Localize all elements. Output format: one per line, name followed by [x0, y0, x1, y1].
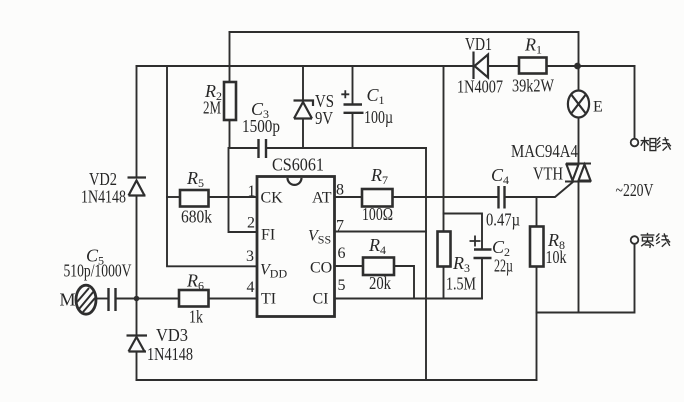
svg-text:VSS: VSS: [308, 228, 331, 247]
svg-text:1N4148: 1N4148: [147, 344, 193, 364]
svg-text:6: 6: [338, 245, 346, 262]
svg-text:4: 4: [247, 279, 255, 296]
svg-text:R4: R4: [368, 235, 386, 257]
svg-text:1N4007: 1N4007: [457, 77, 503, 97]
svg-text:2M: 2M: [203, 98, 221, 118]
svg-text:100µ: 100µ: [364, 107, 393, 127]
svg-text:510p/1000V: 510p/1000V: [64, 261, 132, 281]
svg-text:R5: R5: [186, 168, 204, 190]
svg-text:C1: C1: [367, 85, 385, 107]
svg-text:R1: R1: [524, 35, 542, 57]
svg-text:1k: 1k: [189, 307, 203, 327]
svg-text:CO: CO: [310, 260, 332, 277]
svg-text:VD3: VD3: [156, 325, 188, 345]
svg-text:1N4148: 1N4148: [81, 187, 126, 207]
svg-text:FI: FI: [261, 227, 275, 244]
svg-text:AT: AT: [312, 190, 332, 207]
svg-text:CS6061: CS6061: [272, 155, 324, 175]
svg-text:CI: CI: [313, 291, 329, 308]
svg-text:0.47µ: 0.47µ: [486, 210, 520, 230]
svg-text:R7: R7: [370, 165, 388, 187]
svg-text:VTH: VTH: [533, 164, 563, 184]
svg-text:E: E: [593, 99, 603, 116]
svg-text:C4: C4: [491, 165, 509, 187]
svg-text:8: 8: [336, 182, 344, 199]
svg-text:M: M: [60, 290, 76, 310]
svg-text:1500p: 1500p: [242, 116, 280, 136]
svg-text:~220V: ~220V: [616, 180, 654, 200]
svg-text:100Ω: 100Ω: [362, 204, 393, 224]
svg-text:MAC94A4: MAC94A4: [511, 141, 578, 161]
svg-text:VDD: VDD: [260, 262, 287, 281]
svg-text:3: 3: [246, 248, 254, 265]
svg-text:1.5M: 1.5M: [446, 274, 476, 294]
svg-text:VD1: VD1: [465, 34, 492, 54]
svg-text:10k: 10k: [546, 247, 567, 267]
svg-text:680k: 680k: [181, 207, 212, 227]
svg-text:TI: TI: [261, 291, 276, 308]
svg-text:7: 7: [336, 218, 344, 235]
svg-text:5: 5: [338, 277, 346, 294]
svg-text:1: 1: [248, 183, 256, 200]
svg-text:R6: R6: [186, 271, 204, 293]
svg-text:20k: 20k: [369, 273, 391, 293]
svg-text:2: 2: [247, 215, 255, 232]
svg-text:9V: 9V: [315, 108, 333, 128]
svg-text:CK: CK: [261, 190, 284, 207]
svg-text:22µ: 22µ: [494, 256, 513, 276]
svg-text:39k2W: 39k2W: [512, 76, 554, 96]
svg-text:R3: R3: [452, 253, 470, 275]
